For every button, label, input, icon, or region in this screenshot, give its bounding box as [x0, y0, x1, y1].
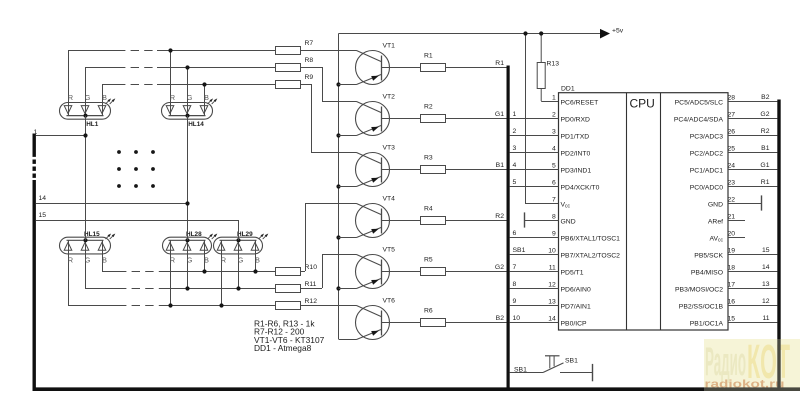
svg-text:R1: R1	[495, 60, 504, 67]
transistor VT4 (KT3107 PNP)	[339, 195, 421, 237]
pin 4 PD2/INT0	[510, 145, 591, 157]
resistor R5	[421, 257, 446, 276]
pin 7 Vcc	[552, 197, 571, 210]
svg-text:16: 16	[728, 299, 736, 306]
svg-text:8: 8	[552, 214, 556, 221]
svg-text:24: 24	[728, 163, 736, 170]
pin 24 PC1/ADC1	[690, 162, 778, 174]
wire+label: net B2 to middle bus	[445, 315, 507, 323]
wire: top G anode rail (HL1.G-HL14.G to R8)	[85, 67, 117, 69]
svg-text:B: B	[255, 255, 260, 264]
svg-text:15: 15	[762, 247, 770, 254]
svg-text:DD1 - Atmega8: DD1 - Atmega8	[254, 343, 312, 353]
svg-text:PD0/RXD: PD0/RXD	[561, 116, 591, 123]
svg-text:4: 4	[513, 162, 517, 169]
svg-text:R11: R11	[305, 281, 317, 288]
svg-text:HL1: HL1	[86, 121, 99, 128]
LED HL1 (RGB)	[60, 93, 116, 128]
svg-text:PC3/ADC3: PC3/ADC3	[690, 133, 723, 140]
wire: R11 to VT5 collector	[301, 254, 357, 289]
svg-text:7: 7	[552, 197, 556, 204]
resistor R11	[276, 285, 301, 293]
pin 1 PC6/RESET	[552, 95, 598, 107]
wire: top B anode rail (HL1.B-HL14.B to R9)	[102, 84, 117, 86]
push button SB1	[510, 356, 592, 374]
svg-text:B: B	[204, 93, 209, 102]
svg-text:R5: R5	[424, 257, 433, 264]
svg-text:5: 5	[552, 163, 556, 170]
resistor R2	[421, 104, 446, 123]
svg-text:R12: R12	[305, 298, 318, 305]
pin 18 PB4/MISO	[691, 264, 778, 276]
resistor R13	[537, 34, 559, 89]
wire+label: net G2 to middle bus	[445, 264, 507, 272]
wire+label: net G1 to middle bus	[445, 111, 507, 119]
wire: bottom G anode rail to R11	[85, 288, 118, 290]
svg-text:13: 13	[762, 281, 770, 288]
svg-text:R1: R1	[761, 179, 770, 186]
svg-text:HL14: HL14	[188, 121, 204, 128]
svg-text:G: G	[85, 255, 91, 264]
wire+label: net B1 to middle bus	[445, 162, 507, 170]
wire: HL14 anode drops	[171, 50, 205, 116]
svg-text:R: R	[68, 93, 73, 102]
svg-text:8: 8	[513, 281, 517, 288]
svg-text:PC6/RESET: PC6/RESET	[561, 99, 599, 106]
svg-text:VT6: VT6	[383, 297, 396, 304]
pin 21 ARef	[708, 214, 745, 226]
wire: R7 to VT1 collector	[301, 50, 357, 52]
svg-text:R1: R1	[424, 53, 433, 60]
svg-text:1: 1	[34, 129, 38, 136]
junction dot net14/column14	[185, 201, 189, 205]
svg-text:G2: G2	[760, 111, 769, 118]
svg-text:G: G	[187, 255, 193, 264]
junction dots: HL14 anodes on rails	[168, 48, 206, 86]
svg-text:14: 14	[39, 195, 47, 202]
pin 22 GND	[708, 195, 762, 210]
svg-text:5: 5	[513, 179, 517, 186]
LED HL29 (RGB)	[214, 231, 269, 264]
svg-text:G: G	[238, 255, 244, 264]
+5v arrow and label	[600, 27, 624, 38]
transistor VT6 (KT3107 PNP)	[339, 297, 421, 339]
wire: bottom R anode rail to R12	[68, 305, 118, 307]
transistor VT5 (KT3107 PNP)	[339, 246, 421, 288]
resistor R7	[276, 47, 301, 55]
svg-text:13: 13	[548, 299, 556, 306]
resistor R10	[276, 268, 301, 276]
resistor R9	[276, 81, 301, 89]
svg-text:PB5/SCK: PB5/SCK	[694, 252, 723, 259]
svg-text:R: R	[170, 255, 175, 264]
value notes text block	[254, 318, 325, 353]
wire: +5v emitter bus (vertical)	[338, 34, 340, 340]
svg-text:PB6/XTAL1/TOSC1: PB6/XTAL1/TOSC1	[561, 235, 621, 242]
svg-text:15: 15	[728, 316, 736, 323]
svg-text:R3: R3	[424, 155, 433, 162]
wire: HL29 anode drops	[222, 251, 256, 306]
junction dot +5v/Vcc	[523, 31, 527, 35]
svg-text:PB0/ICP: PB0/ICP	[561, 320, 588, 327]
wire: top R anode rail (HL1.R-HL14.R to R7)	[68, 50, 117, 52]
svg-text:AVcc: AVcc	[709, 235, 723, 243]
svg-text:G2: G2	[495, 264, 504, 271]
pin 6 PD4/XCK/T0	[510, 179, 600, 191]
wire+label: net 1 from left bus	[34, 129, 86, 136]
svg-text:SB1: SB1	[514, 366, 527, 373]
svg-text:VT4: VT4	[383, 195, 396, 202]
svg-text:6: 6	[552, 180, 556, 187]
svg-text:1: 1	[552, 95, 556, 102]
svg-text:SB1: SB1	[565, 357, 578, 364]
wire: HL28 anode drops	[171, 251, 205, 306]
pin 17 PB3/MOSI/OC2	[675, 281, 777, 293]
node: LED matrix continuation dots (3x3)	[117, 150, 155, 188]
svg-text:PD3/IND1: PD3/IND1	[561, 167, 592, 174]
pin 27 PC4/ADC4/SDA	[674, 111, 778, 123]
pin 20 AVcc	[709, 231, 745, 244]
svg-text:G: G	[187, 93, 193, 102]
svg-text:21: 21	[728, 214, 736, 221]
svg-text:R: R	[221, 255, 226, 264]
svg-text:23: 23	[728, 180, 736, 187]
bus: left column bus (nets 1-15)	[33, 134, 36, 390]
bus: bottom frame bus	[33, 387, 800, 391]
wire: bottom B anode rail to R10	[102, 271, 118, 273]
pin 26 PC3/ADC3	[690, 128, 778, 140]
pin 23 PC0/ADC0	[690, 179, 778, 191]
svg-text:R: R	[68, 255, 73, 264]
svg-text:PC1/ADC1: PC1/ADC1	[690, 167, 723, 174]
wire: R9 to VT3 collector	[301, 84, 357, 153]
wire: HL15 anode drops	[69, 251, 103, 306]
svg-text:VT5: VT5	[383, 246, 396, 253]
junction dots: HL28/HL29 anodes on bottom rails	[168, 269, 257, 307]
svg-text:2: 2	[552, 112, 556, 119]
wire: Vcc line to pin 7	[525, 34, 559, 204]
svg-text:GND: GND	[708, 201, 723, 208]
svg-text:PD2/INT0: PD2/INT0	[561, 150, 591, 157]
wire: R12 to VT6 collector	[301, 305, 357, 307]
svg-text:GND: GND	[561, 218, 576, 225]
junction dot +5v/R13	[539, 31, 543, 35]
svg-text:PB7/XTAL2/TOSC2: PB7/XTAL2/TOSC2	[561, 252, 621, 259]
svg-text:PB2/SS/OC1B: PB2/SS/OC1B	[679, 303, 724, 310]
wire+label: net R2 to middle bus	[445, 213, 507, 221]
LED HL14 (RGB)	[162, 93, 218, 128]
svg-text:PD7/AIN1: PD7/AIN1	[561, 303, 591, 310]
resistor R6	[421, 308, 446, 327]
svg-text:4: 4	[552, 146, 556, 153]
svg-text:R9: R9	[305, 74, 314, 81]
svg-text:G1: G1	[760, 162, 769, 169]
svg-text:R2: R2	[495, 213, 504, 220]
pin 25 PC2/ADC2	[690, 145, 778, 157]
svg-text:HL28: HL28	[186, 231, 202, 238]
svg-text:B1: B1	[496, 162, 505, 169]
svg-text:R2: R2	[424, 104, 433, 111]
svg-text:R8: R8	[305, 57, 314, 64]
svg-text:PC5/ADC5/SLC: PC5/ADC5/SLC	[675, 99, 723, 106]
svg-text:12: 12	[548, 282, 556, 289]
svg-text:PD5/T1: PD5/T1	[561, 269, 584, 276]
svg-text:11: 11	[762, 315, 769, 322]
svg-text:3: 3	[552, 129, 556, 136]
wire+label: net 14 from left bus	[36, 195, 187, 204]
svg-text:15: 15	[39, 212, 47, 219]
svg-text:18: 18	[728, 265, 736, 272]
svg-text:G: G	[85, 93, 91, 102]
pin 9 PB6/XTAL1/TOSC1	[510, 230, 621, 242]
svg-text:10: 10	[513, 315, 521, 322]
pin 5 PD3/IND1	[510, 162, 592, 174]
svg-text:R13: R13	[547, 61, 560, 68]
wire: HL1 anode drops	[69, 50, 103, 116]
transistor VT3 (KT3107 PNP)	[339, 144, 421, 186]
pin 8 GND	[525, 212, 576, 227]
svg-text:VT3: VT3	[383, 144, 396, 151]
junction dots: transistor emitters on +5v bus	[336, 82, 340, 290]
svg-text:HL29: HL29	[237, 231, 253, 238]
svg-text:PD1/TXD: PD1/TXD	[561, 133, 590, 140]
junction dot net1/column1	[83, 133, 87, 137]
svg-text:B: B	[204, 255, 209, 264]
pin 19 PB5/SCK	[694, 247, 777, 259]
pin 13 PD7/AIN1	[510, 298, 591, 310]
svg-text:B1: B1	[761, 145, 770, 152]
svg-text:14: 14	[548, 316, 556, 323]
pin 2 PD0/RXD	[510, 111, 590, 123]
svg-text:R: R	[170, 93, 175, 102]
svg-text:PB3/MOSI/OC2: PB3/MOSI/OC2	[675, 286, 723, 293]
svg-text:R7: R7	[305, 40, 314, 47]
svg-text:6: 6	[513, 230, 517, 237]
svg-text:Vcc: Vcc	[561, 201, 571, 209]
svg-text:DD1: DD1	[561, 86, 575, 93]
wire: column 1 common cathode (HL1 to HL15)	[85, 116, 87, 241]
svg-text:R2: R2	[761, 128, 770, 135]
svg-text:PC2/ADC2: PC2/ADC2	[690, 150, 723, 157]
svg-text:PB4/MISO: PB4/MISO	[691, 269, 723, 276]
ground bar at SB1	[592, 364, 594, 381]
svg-text:20: 20	[728, 231, 736, 238]
pin 15 PB1/OC1A	[690, 315, 778, 327]
svg-text:SB1: SB1	[513, 247, 526, 254]
svg-text:25: 25	[728, 146, 736, 153]
svg-text:R10: R10	[305, 264, 318, 271]
wire: R8 to VT2 collector	[301, 67, 357, 102]
pin 28 PC5/ADC5/SLC	[675, 94, 778, 106]
svg-text:B2: B2	[496, 315, 505, 322]
wire+label: net R1 to middle bus	[445, 60, 507, 68]
LED HL28 (RGB)	[163, 231, 218, 264]
svg-text:19: 19	[728, 248, 736, 255]
svg-text:PD6/AIN0: PD6/AIN0	[561, 286, 591, 293]
wire: column 14 common cathode (HL14 to HL28)	[187, 116, 189, 241]
svg-text:R6: R6	[424, 308, 433, 315]
IC DD1 ATmega8 CPU box	[559, 86, 729, 331]
svg-text:26: 26	[728, 129, 736, 136]
svg-text:27: 27	[728, 112, 736, 119]
+5v power rail	[339, 33, 602, 35]
svg-text:+5v: +5v	[612, 27, 624, 34]
svg-text:PB1/OC1A: PB1/OC1A	[690, 320, 724, 327]
svg-text:ARef: ARef	[708, 218, 723, 225]
svg-text:17: 17	[728, 282, 736, 289]
transistor VT2 (KT3107 PNP)	[339, 93, 421, 135]
resistor R1	[421, 53, 446, 72]
svg-text:1: 1	[513, 111, 517, 118]
resistor R3	[421, 155, 446, 174]
svg-text:22: 22	[728, 197, 736, 204]
svg-text:B: B	[102, 255, 107, 264]
pin 10 PB7/XTAL2/TOSC2	[510, 247, 621, 259]
svg-text:PC4/ADC4/SDA: PC4/ADC4/SDA	[674, 116, 724, 123]
resistor R4	[421, 206, 446, 225]
pin 16 PB2/SS/OC1B	[679, 298, 778, 310]
svg-text:G1: G1	[495, 111, 504, 118]
watermark radiokot.ru	[704, 336, 800, 391]
svg-text:11: 11	[549, 265, 556, 272]
svg-text:CPU: CPU	[630, 97, 655, 111]
resistor R12	[276, 302, 301, 310]
svg-text:9: 9	[513, 298, 517, 305]
svg-text:28: 28	[728, 95, 736, 102]
bus: middle bus to CPU left pins	[507, 66, 510, 390]
wire: R13 to pin 1 PC6/RESET	[541, 89, 558, 102]
bus: right bus to CPU right pins	[777, 100, 780, 390]
svg-text:PD4/XCK/T0: PD4/XCK/T0	[561, 184, 600, 191]
LED HL15 (RGB)	[60, 231, 116, 264]
svg-text:2: 2	[513, 128, 517, 135]
pin 14 PB0/ICP	[510, 315, 587, 327]
transistor VT1 (KT3107 PNP)	[339, 42, 421, 84]
pin 12 PD6/AIN0	[510, 281, 591, 293]
svg-text:B: B	[102, 93, 107, 102]
svg-text:B2: B2	[761, 94, 770, 101]
wire: R10 to VT4 collector	[301, 203, 357, 272]
svg-text:3: 3	[513, 145, 517, 152]
svg-text:7: 7	[513, 264, 517, 271]
svg-text:PC0/ADC0: PC0/ADC0	[690, 184, 723, 191]
pin 3 PD1/TXD	[510, 128, 590, 140]
watermark tint overlay	[704, 339, 800, 391]
svg-text:R4: R4	[424, 206, 433, 213]
svg-text:VT2: VT2	[383, 93, 396, 100]
svg-text:VT1: VT1	[383, 42, 396, 49]
resistor R8	[276, 64, 301, 72]
svg-text:9: 9	[552, 231, 556, 238]
pin 11 PD5/T1	[510, 264, 584, 276]
svg-text:12: 12	[762, 298, 770, 305]
wire+label: net 15 from left bus to HL29 cathode	[36, 212, 239, 240]
svg-text:10: 10	[548, 248, 556, 255]
svg-text:14: 14	[762, 264, 770, 271]
svg-text:HL15: HL15	[84, 231, 100, 238]
